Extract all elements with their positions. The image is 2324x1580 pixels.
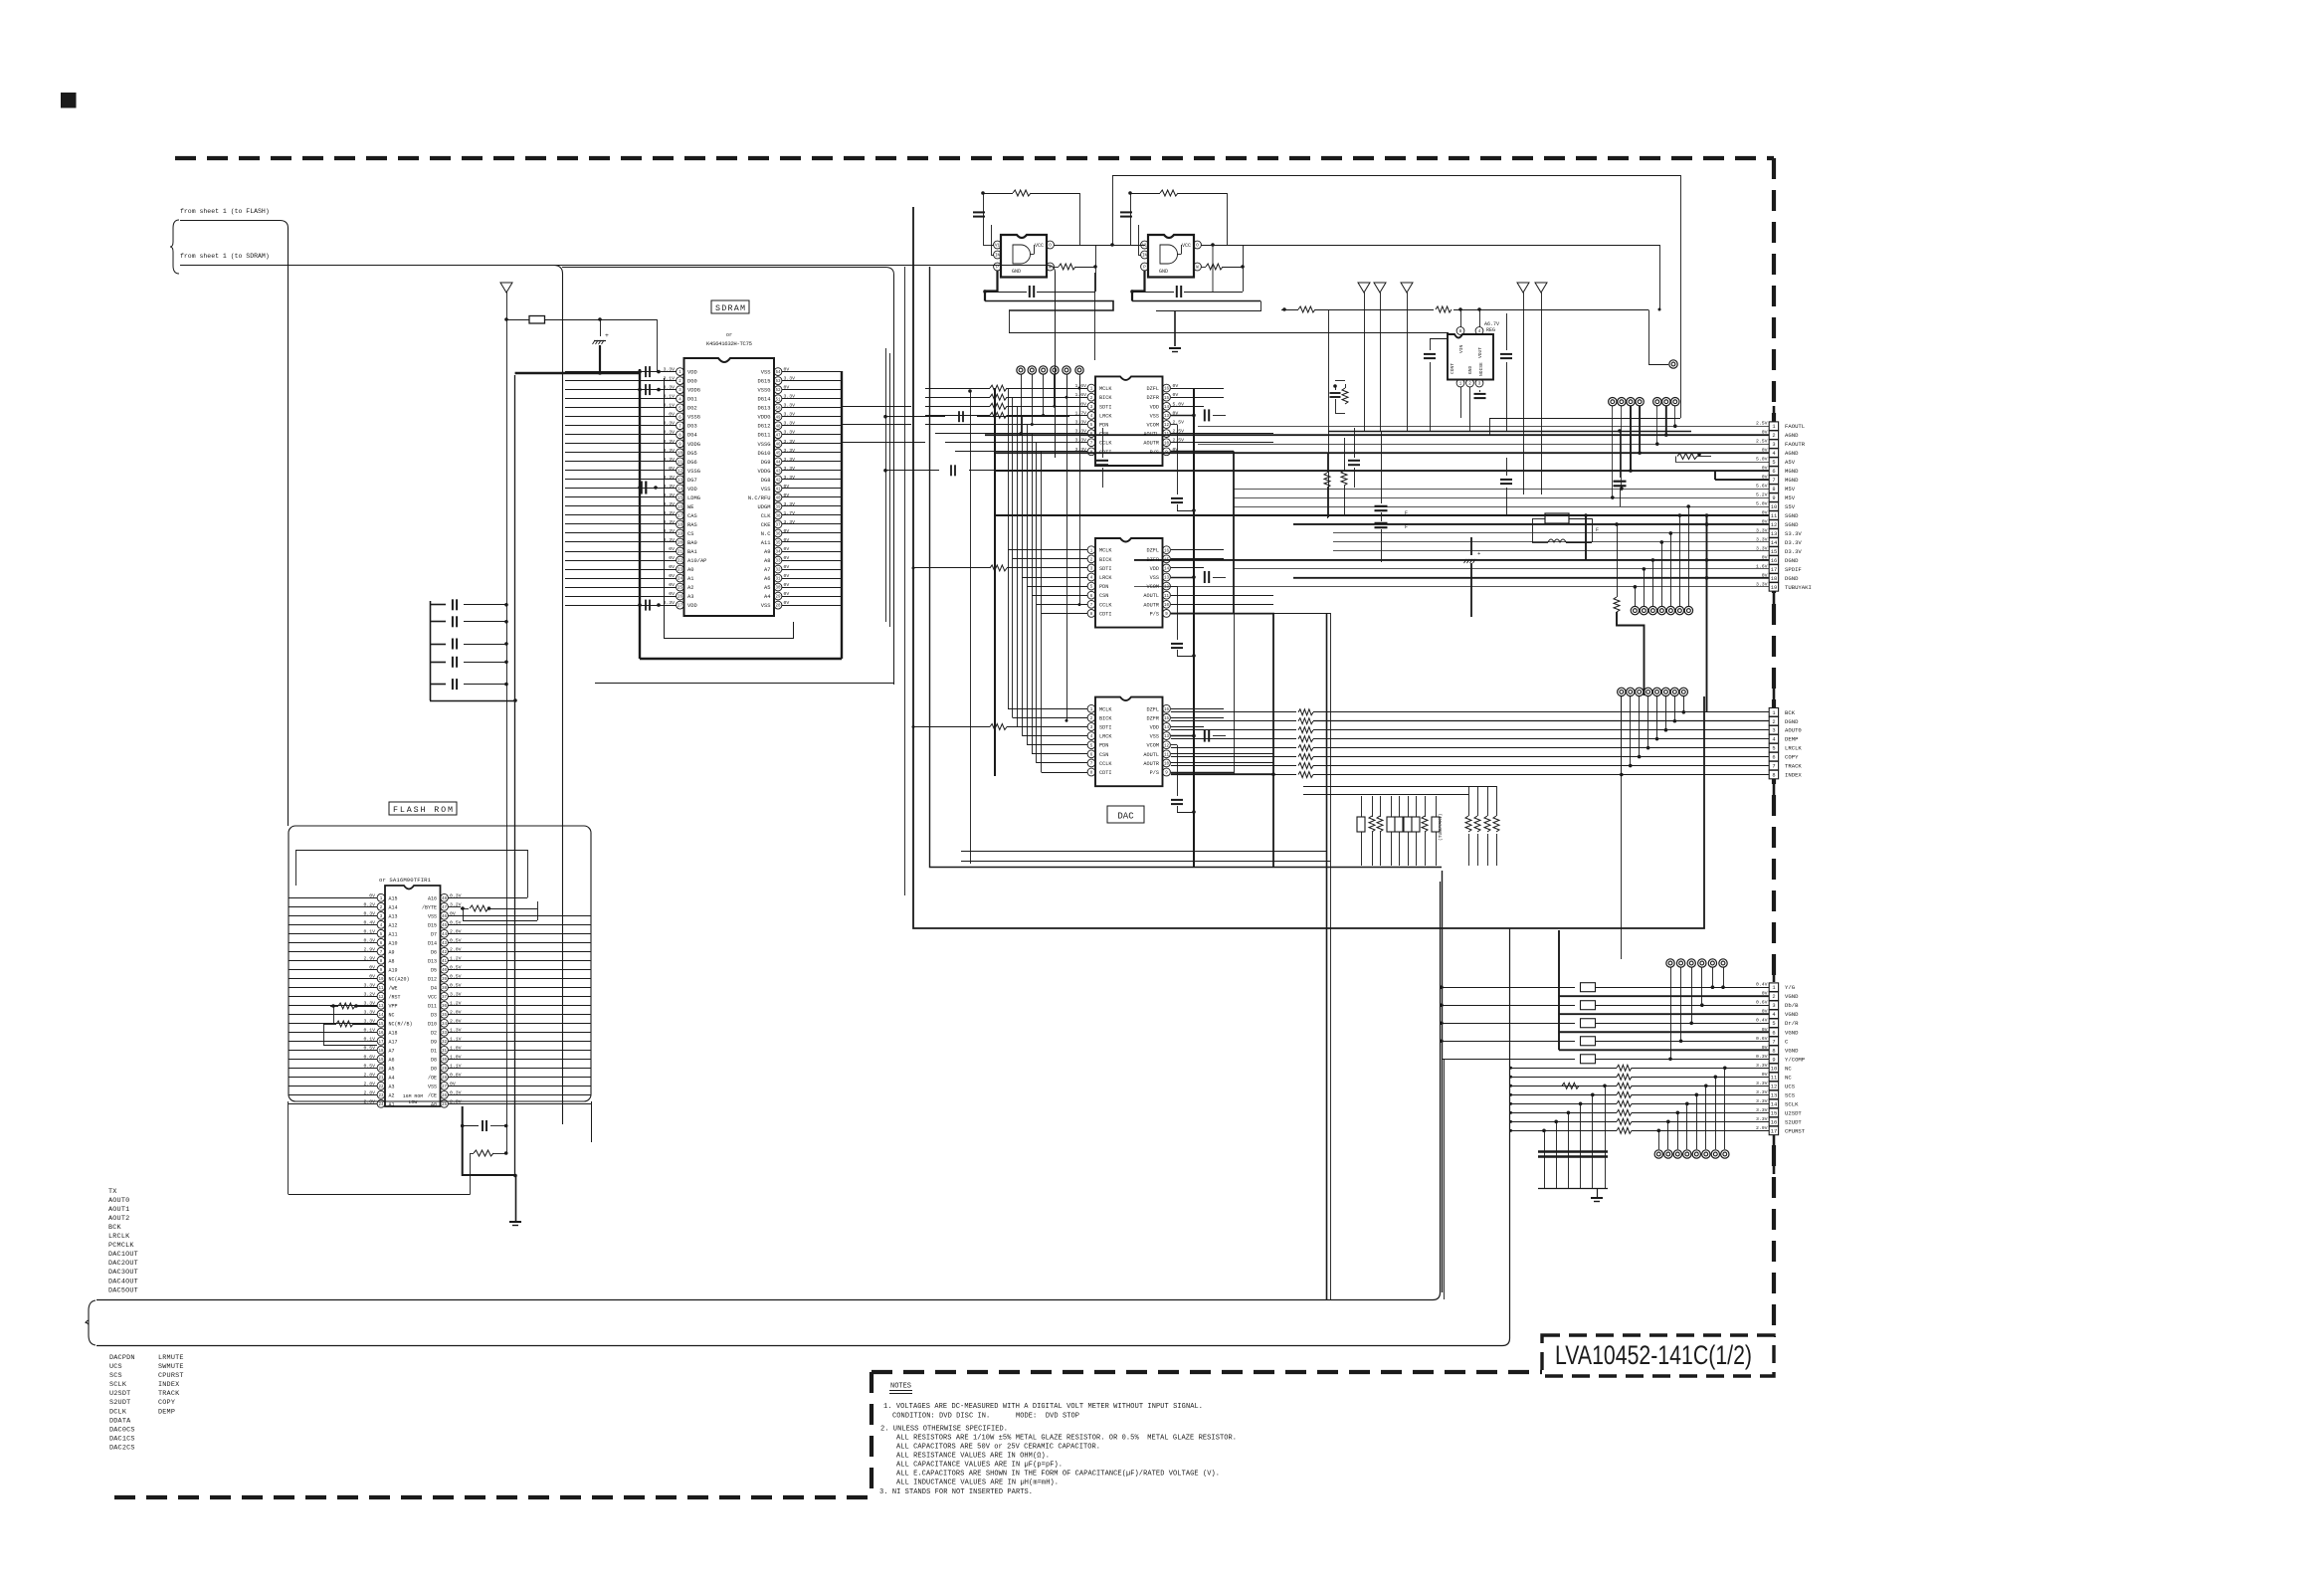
- svg-text:3.3V: 3.3V: [1756, 1089, 1768, 1095]
- svg-text:/CE: /CE: [428, 1092, 437, 1098]
- gate ground thick wire: [1132, 271, 1145, 301]
- vertical x1100 (to SDRAM wire drop): [1094, 273, 1096, 360]
- svg-text:D12: D12: [428, 976, 437, 982]
- wire to SDRAM: [180, 266, 1056, 459]
- svg-text:CLK: CLK: [761, 513, 771, 519]
- svg-text:LRCK: LRCK: [1099, 734, 1112, 740]
- long bus verticals x1333/1337: [1326, 613, 1328, 1299]
- svg-text:A12: A12: [389, 922, 398, 928]
- svg-text:DEMP: DEMP: [1785, 736, 1799, 743]
- wire y334: [1009, 332, 1449, 334]
- svg-text:/WE: /WE: [389, 985, 398, 991]
- svg-text:19: 19: [678, 533, 683, 537]
- svg-text:3.3V: 3.3V: [663, 528, 675, 534]
- via stubs CN2 diagonal: [1620, 696, 1685, 776]
- svg-text:3.3V: 3.3V: [663, 493, 675, 498]
- svg-text:3: 3: [1772, 1003, 1775, 1009]
- svg-text:CCLK: CCLK: [1099, 761, 1112, 767]
- svg-text:S2UDT: S2UDT: [1785, 1118, 1802, 1125]
- capacitor C(dac1 vss): [1171, 415, 1194, 417]
- svg-text:6: 6: [1772, 755, 1775, 761]
- svg-text:AGND: AGND: [1785, 450, 1799, 457]
- svg-text:28: 28: [442, 1077, 448, 1081]
- wires DAC U1 pins 5-8: [925, 424, 1087, 426]
- svg-text:16: 16: [1164, 708, 1170, 712]
- svg-text:7: 7: [1772, 1039, 1775, 1045]
- svg-text:46: 46: [442, 915, 448, 919]
- svg-text:17: 17: [1771, 1128, 1777, 1134]
- svg-text:32: 32: [775, 569, 781, 573]
- svg-text:54: 54: [775, 371, 781, 375]
- svg-text:SGND: SGND: [1785, 512, 1799, 519]
- svg-text:34: 34: [775, 551, 781, 555]
- svg-text:10: 10: [1771, 504, 1777, 510]
- svg-text:DDATA: DDATA: [109, 1417, 131, 1425]
- svg-text:LRCK: LRCK: [1099, 575, 1112, 581]
- via stubs below CN1: [1634, 504, 1690, 606]
- svg-text:INDEX: INDEX: [158, 1381, 179, 1389]
- svg-text:VSS: VSS: [1150, 734, 1159, 740]
- svg-text:20: 20: [378, 1068, 384, 1072]
- svg-text:VDDG: VDDG: [687, 442, 700, 448]
- svg-text:51: 51: [775, 398, 781, 402]
- svg-text:ALL E.CAPACITORS ARE SHOWN IN: ALL E.CAPACITORS ARE SHOWN IN THE FORM O…: [896, 1471, 1220, 1479]
- FLASH right wire bundle: [296, 851, 592, 1104]
- svg-text:15: 15: [378, 1023, 384, 1027]
- connector CN3 logic wires: [1509, 1065, 1769, 1133]
- svg-text:10: 10: [1164, 604, 1170, 608]
- svg-text:5: 5: [1772, 1021, 1775, 1027]
- svg-text:D3.3V: D3.3V: [1785, 548, 1802, 555]
- gate VCC wire + resistor: [1130, 193, 1160, 195]
- svg-text:5.6V: 5.6V: [1756, 484, 1768, 490]
- svg-text:A8: A8: [764, 558, 770, 564]
- svg-text:A4: A4: [764, 594, 770, 600]
- svg-text:14: 14: [1771, 540, 1777, 546]
- svg-text:37: 37: [775, 524, 781, 528]
- wire VCOM caps: [1171, 424, 1177, 426]
- svg-text:AOUT2: AOUT2: [108, 1215, 129, 1223]
- capacitor C(1361) mid2: [1348, 460, 1360, 462]
- bus wire x518 thick: [514, 375, 516, 1175]
- svg-text:48: 48: [775, 425, 781, 429]
- svg-text:AOUT0: AOUT0: [1785, 727, 1802, 734]
- ground triangle x=1549: [1535, 283, 1547, 293]
- resistor Rv(1334): [1327, 453, 1329, 473]
- wire SDRAM box left: [554, 266, 563, 1125]
- svg-text:NOTES: NOTES: [890, 1383, 911, 1391]
- gate ground thick wire: [985, 271, 998, 301]
- svg-text:0V: 0V: [784, 484, 790, 490]
- svg-text:1: 1: [1772, 985, 1775, 991]
- svg-text:DAC1OUT: DAC1OUT: [108, 1251, 138, 1259]
- svg-text:AOUTR: AOUTR: [1143, 441, 1159, 447]
- svg-text:GND: GND: [1012, 269, 1021, 275]
- svg-text:DAC5OUT: DAC5OUT: [108, 1286, 138, 1294]
- svg-text:GND: GND: [1159, 269, 1168, 275]
- svg-text:3.3V: 3.3V: [1756, 1098, 1768, 1104]
- svg-text:Y/COMP: Y/COMP: [1785, 1056, 1806, 1063]
- connector CN3 labels: [1785, 984, 1806, 1134]
- svg-text:LRCK: LRCK: [1099, 413, 1112, 419]
- svg-text:16: 16: [1164, 549, 1170, 553]
- SDRAM inner box: [665, 378, 794, 639]
- svg-text:2.5V: 2.5V: [1756, 439, 1768, 445]
- capacitor C(1514 mid): [1506, 458, 1508, 476]
- capacitor C(sdram2): [645, 384, 647, 395]
- capacitor C(gate) left: [1120, 211, 1132, 213]
- svg-text:VCOM: VCOM: [1147, 743, 1159, 749]
- svg-text:CSN: CSN: [1099, 752, 1108, 758]
- capacitor C(gate) bottom: [1029, 286, 1031, 297]
- SDRAM right wire bundle: [782, 372, 842, 606]
- svg-text:Db/B: Db/B: [1785, 1002, 1799, 1009]
- svg-text:FLASH ROM: FLASH ROM: [393, 805, 453, 815]
- svg-text:40: 40: [442, 969, 448, 973]
- svg-text:DAC0CS: DAC0CS: [109, 1426, 135, 1434]
- SDRAM VSS rail right: [841, 371, 843, 659]
- svg-text:DZFR: DZFR: [1147, 715, 1159, 721]
- svg-text:CAS: CAS: [687, 513, 697, 519]
- svg-text:8: 8: [1772, 773, 1775, 779]
- SDRAM right pins: [748, 367, 795, 610]
- svg-text:VIN: VIN: [1458, 344, 1464, 353]
- ground triangle x=1387: [1374, 283, 1386, 293]
- wire VDD DAC U1: [1171, 406, 1194, 408]
- svg-text:A7: A7: [389, 1048, 395, 1054]
- connector CN2 wires + resistors: [1171, 709, 1769, 778]
- svg-text:13: 13: [1771, 531, 1777, 537]
- svg-text:34: 34: [442, 1023, 448, 1027]
- svg-text:INDEX: INDEX: [1785, 772, 1802, 779]
- svg-text:A3: A3: [389, 1084, 395, 1089]
- capacitor array bottom (6 caps): [1538, 1085, 1608, 1189]
- svg-text:DAC3OUT: DAC3OUT: [108, 1269, 138, 1277]
- svg-text:DEMP: DEMP: [158, 1408, 175, 1416]
- svg-text:D1: D1: [431, 1048, 437, 1054]
- svg-text:SCS: SCS: [1785, 1091, 1796, 1098]
- wire gate gnd bus thick: [985, 301, 1113, 311]
- svg-text:VSSG: VSSG: [758, 442, 771, 448]
- svg-text:VDD: VDD: [1150, 404, 1159, 410]
- svg-text:26: 26: [678, 596, 683, 600]
- svg-text:1.7V: 1.7V: [784, 510, 796, 516]
- svg-text:SWMUTE: SWMUTE: [158, 1363, 184, 1371]
- svg-text:TX: TX: [108, 1188, 117, 1196]
- thick net P/S x1240: [1233, 452, 1235, 614]
- svg-text:18: 18: [678, 524, 683, 528]
- svg-text:52: 52: [775, 389, 781, 393]
- svg-text:11: 11: [1164, 595, 1170, 599]
- svg-text:5.2V: 5.2V: [1756, 493, 1768, 498]
- svg-text:50: 50: [775, 407, 781, 411]
- svg-text:+: +: [605, 332, 609, 339]
- svg-text:A17: A17: [389, 1039, 398, 1045]
- DAC U2 left wires: [1008, 549, 1087, 551]
- svg-text:VDD: VDD: [687, 370, 697, 376]
- vertical stubs from vias U1: [1021, 374, 1023, 434]
- svg-text:SDRAM: SDRAM: [715, 303, 745, 313]
- ground triangle x=1371: [1358, 283, 1370, 293]
- svg-text:1: 1: [1772, 710, 1775, 716]
- svg-text:38: 38: [442, 987, 448, 991]
- svg-text:A6: A6: [764, 576, 770, 582]
- capacitor C(sdram5) right: [958, 411, 960, 422]
- resistor R(flash2) bottom: [474, 1150, 493, 1156]
- svg-text:VPP: VPP: [389, 1003, 398, 1009]
- svg-text:DG9: DG9: [761, 460, 771, 466]
- svg-text:A4: A4: [389, 1075, 395, 1081]
- svg-text:SCLK: SCLK: [109, 1381, 127, 1389]
- gate VCC wire + resistor: [983, 193, 1013, 195]
- svg-text:/BYTE: /BYTE: [422, 904, 437, 910]
- gate input pins: [1141, 241, 1149, 249]
- svg-text:12: 12: [678, 470, 683, 474]
- svg-text:PCMCLK: PCMCLK: [108, 1242, 134, 1250]
- svg-text:BCK: BCK: [1785, 709, 1796, 716]
- svg-text:VSS: VSS: [761, 487, 771, 493]
- dashed notes border vertical: [870, 1372, 873, 1497]
- svg-text:0V: 0V: [784, 537, 790, 543]
- svg-text:30: 30: [442, 1059, 448, 1063]
- wire gnd stub down to earth: [1212, 245, 1214, 292]
- svg-text:24: 24: [678, 578, 683, 582]
- svg-text:V1: V1: [995, 245, 1001, 249]
- capacitor C(reg in): [1424, 353, 1436, 355]
- wire gate2 gnd bus thick: [1132, 300, 1260, 302]
- wire mgnd jog: [1714, 471, 1716, 480]
- svg-text:12: 12: [1771, 522, 1777, 528]
- ground triangle x=1414: [1401, 283, 1413, 293]
- svg-text:49: 49: [775, 416, 781, 420]
- svg-text:A11: A11: [389, 931, 398, 937]
- svg-text:12: 12: [1164, 744, 1170, 748]
- svg-text:D10: D10: [428, 1021, 437, 1027]
- svg-text:AOUT0: AOUT0: [108, 1197, 129, 1205]
- svg-text:VCOM: VCOM: [1147, 584, 1159, 590]
- ferrite bead near left bus: [504, 317, 508, 321]
- svg-text:3.3V: 3.3V: [663, 501, 675, 507]
- svg-text:4: 4: [1772, 1012, 1775, 1018]
- svg-text:6: 6: [1772, 469, 1775, 475]
- connector CN1 labels: [1785, 423, 1812, 591]
- svg-text:31: 31: [775, 578, 781, 582]
- svg-text:SDTI: SDTI: [1099, 566, 1111, 572]
- svg-text:53: 53: [775, 380, 781, 384]
- svg-text:A0: A0: [687, 567, 693, 573]
- capacitor C(1628 mid): [1620, 431, 1622, 478]
- wire flash-bottom return: [470, 1153, 472, 1194]
- svg-text:14: 14: [1164, 726, 1170, 730]
- svg-text:UCS: UCS: [1785, 1083, 1796, 1089]
- svg-text:0V: 0V: [1762, 1072, 1768, 1078]
- bus band bottom wire: [97, 928, 1510, 1346]
- svg-text:VGND: VGND: [1785, 1047, 1799, 1054]
- IC FLASH ROM body: [385, 886, 441, 1106]
- svg-text:VOUT: VOUT: [1477, 347, 1483, 358]
- IC gate U at x=1006: [1001, 235, 1047, 278]
- IC DAC U1 body: [1095, 376, 1163, 466]
- svg-text:FAOUTL: FAOUTL: [1785, 423, 1805, 430]
- DAC U3 right pins: [1143, 704, 1170, 776]
- svg-text:LRCLK: LRCLK: [108, 1233, 130, 1241]
- svg-text:D3.3V: D3.3V: [1785, 539, 1802, 546]
- svg-text:22: 22: [678, 560, 683, 564]
- svg-text:BCK: BCK: [108, 1224, 122, 1232]
- svg-text:DG0: DG0: [687, 379, 697, 385]
- svg-text:VCC: VCC: [428, 994, 437, 1000]
- svg-text:WE: WE: [687, 504, 693, 510]
- svg-text:48: 48: [442, 897, 448, 901]
- vias above CN1 group2: [1653, 398, 1661, 406]
- resistor R on y311 near reg: [1436, 306, 1452, 312]
- svg-text:AOUTR: AOUTR: [1143, 761, 1159, 767]
- svg-text:33: 33: [442, 1032, 448, 1036]
- svg-text:or SA16M90TFIR1: or SA16M90TFIR1: [379, 877, 432, 884]
- svg-text:3.3V: 3.3V: [1756, 1107, 1768, 1113]
- svg-text:D0: D0: [431, 1066, 437, 1072]
- connector CN3 VGND thick wires: [1559, 930, 1769, 1050]
- svg-text:FAOUTR: FAOUTR: [1785, 441, 1806, 448]
- connector CN1 voltage labels: [1756, 421, 1768, 588]
- svg-text:DZFL: DZFL: [1147, 706, 1159, 712]
- junction dots on 518 bus: [513, 1174, 517, 1178]
- svg-text:VDD: VDD: [1150, 725, 1159, 731]
- svg-text:21: 21: [378, 1077, 384, 1081]
- svg-text:13: 13: [1164, 735, 1170, 739]
- svg-text:3: 3: [1772, 442, 1775, 448]
- svg-text:DG5: DG5: [687, 451, 697, 457]
- svg-text:DG11: DG11: [758, 433, 771, 439]
- capacitor C(1108) mid: [1096, 460, 1108, 462]
- svg-text:DG6: DG6: [687, 460, 697, 466]
- svg-text:31: 31: [442, 1050, 448, 1054]
- svg-text:ALL RESISTORS ARE 1/10W ±5% ME: ALL RESISTORS ARE 1/10W ±5% METAL GLAZE …: [896, 1435, 1237, 1443]
- svg-text:PDN: PDN: [1099, 423, 1108, 429]
- svg-text:25: 25: [678, 587, 683, 591]
- dashed notes border horizontal: [871, 1370, 1544, 1374]
- ground below flash: [515, 1175, 517, 1221]
- svg-text:3.3V: 3.3V: [1756, 1116, 1768, 1122]
- svg-text:6: 6: [1772, 1030, 1775, 1036]
- svg-text:S3.3V: S3.3V: [1785, 530, 1802, 537]
- wires above TUBUYAKI row: [1303, 786, 1496, 788]
- svg-text:A8: A8: [389, 958, 395, 964]
- svg-text:LRCLK: LRCLK: [1785, 745, 1802, 752]
- svg-text:5.0V: 5.0V: [1756, 501, 1768, 507]
- svg-text:DG14: DG14: [758, 397, 771, 403]
- svg-text:DZFL: DZFL: [1147, 386, 1159, 392]
- svg-text:44: 44: [442, 933, 448, 937]
- svg-text:CSN: CSN: [1099, 593, 1108, 599]
- DAC source bundle from SDRAM side: [904, 267, 906, 895]
- svg-text:MCLK: MCLK: [1099, 386, 1112, 392]
- svg-text:3.3V: 3.3V: [663, 510, 675, 516]
- capacitor column C51x (5 bypass caps): [430, 599, 517, 702]
- resistor R(vpp1): [338, 1003, 355, 1009]
- connector CN3 body: [1773, 955, 1776, 982]
- svg-text:42: 42: [775, 479, 781, 483]
- wire reg rail y433: [1328, 431, 1691, 433]
- IC DAC U2 body: [1095, 538, 1163, 628]
- capacitor C(reg out): [1500, 353, 1512, 355]
- svg-text:CKE: CKE: [761, 522, 771, 528]
- IC DAC U3 body: [1095, 697, 1163, 787]
- svg-text:14: 14: [1771, 1101, 1777, 1107]
- resistor R(a5v) jog: [1675, 457, 1677, 463]
- svg-text:DAC4OUT: DAC4OUT: [108, 1278, 138, 1285]
- svg-text:S2UDT: S2UDT: [109, 1399, 130, 1407]
- svg-text:5: 5: [1772, 746, 1775, 752]
- FLASH right pins: [422, 892, 462, 1107]
- wire vertical x1451: [1444, 1060, 1446, 1299]
- svg-text:14: 14: [378, 1014, 384, 1018]
- wire y311-334 net: [1328, 309, 1330, 517]
- svg-text:0.6V: 0.6V: [1756, 1000, 1768, 1006]
- dashed sheet border bottom: [114, 1495, 871, 1499]
- svg-text:45: 45: [442, 924, 448, 928]
- connector CN2 body: [1773, 687, 1776, 707]
- wire gate2 output long: [1202, 245, 1660, 247]
- svg-text:47: 47: [442, 906, 448, 910]
- svg-text:15: 15: [1164, 397, 1170, 401]
- svg-text:DG15: DG15: [758, 379, 771, 385]
- svg-text:12: 12: [1164, 424, 1170, 428]
- svg-text:K4S641632H-TC75: K4S641632H-TC75: [706, 340, 752, 347]
- svg-text:38: 38: [775, 515, 781, 519]
- connector CN3 voltage labels: [1756, 982, 1768, 1131]
- svg-text:VSS: VSS: [761, 370, 771, 376]
- DAC input vertical bundle: [1009, 388, 1042, 772]
- svg-text:SDTI: SDTI: [1099, 725, 1111, 731]
- svg-text:35: 35: [442, 1014, 448, 1018]
- svg-text:/OE: /OE: [428, 1075, 437, 1081]
- svg-text:UDGM: UDGM: [758, 504, 771, 510]
- resistor R(ucs): [1562, 1083, 1579, 1088]
- svg-text:SDTI: SDTI: [1099, 404, 1111, 410]
- via stubs CN1: [1611, 406, 1677, 499]
- svg-text:13: 13: [1164, 415, 1170, 419]
- svg-text:VSSG: VSSG: [758, 388, 771, 394]
- gate input pins: [994, 241, 1002, 249]
- svg-text:CDTI: CDTI: [1099, 611, 1111, 617]
- svg-text:42: 42: [442, 951, 448, 955]
- via top right: [1669, 360, 1677, 368]
- svg-text:CONT: CONT: [1450, 363, 1455, 374]
- regulator pins: [1456, 327, 1464, 335]
- svg-text:SGND: SGND: [1785, 521, 1799, 528]
- dashed sheet border right: [1772, 158, 1776, 1337]
- svg-text:D14: D14: [428, 940, 437, 946]
- svg-text:DG13: DG13: [758, 406, 771, 412]
- via stubs above CN3: [1668, 967, 1725, 1061]
- DAC U2 right pins: [1143, 546, 1170, 618]
- svg-text:43: 43: [442, 942, 448, 946]
- svg-text:3: 3: [1772, 728, 1775, 734]
- DAC U3 left wires: [1008, 708, 1087, 710]
- svg-text:13: 13: [1164, 577, 1170, 581]
- svg-text:4: 4: [1772, 451, 1775, 457]
- resistor R(1310) y311: [1281, 309, 1298, 311]
- svg-text:A2: A2: [687, 585, 693, 591]
- svg-text:37: 37: [442, 996, 448, 1000]
- svg-text:+: +: [1477, 550, 1480, 557]
- SDRAM left wire bundle: [565, 372, 677, 606]
- svg-text:3.3V: 3.3V: [784, 519, 796, 525]
- svg-text:M5V: M5V: [1785, 494, 1796, 501]
- svg-text:BICK: BICK: [1099, 395, 1112, 401]
- capacitor C(gate) bottom: [1176, 286, 1178, 297]
